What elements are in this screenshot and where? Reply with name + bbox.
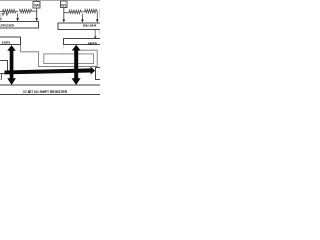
wire loop inner rectangle <box>44 54 94 64</box>
wiper terminal W1 box <box>60 0 67 8</box>
wiper terminal W0 box <box>33 0 40 8</box>
svg-text:256:1 MUX: 256:1 MUX <box>83 24 96 28</box>
tap tick T1 <box>2 13 4 17</box>
input terminal box 2 (cropped left) <box>0 74 2 80</box>
faint cropped tap at right edge <box>99 9 101 19</box>
wiper W0 wire + arrow into mux <box>35 8 38 21</box>
wiper register WR1 (WIPER) <box>64 38 102 45</box>
tap arrow A1 <box>16 13 19 21</box>
svg-text:W1: W1 <box>61 3 66 7</box>
faint cropped edge right of mux <box>99 30 101 33</box>
tap arrow A0 (cropped left) <box>0 13 2 21</box>
multiplexer U1 (MUX-0) <box>0 21 38 27</box>
bus B2 (serial horizontal thick to COUT box) <box>5 67 96 75</box>
svg-text:W0: W0 <box>34 3 39 7</box>
background <box>0 0 100 100</box>
wire WR0 loop (outer routing to COUT side) <box>21 45 98 67</box>
tap arrow A2 <box>81 14 84 23</box>
svg-text:MULTIPLEXER: MULTIPLEXER <box>0 23 15 27</box>
output buffer box (cropped right) <box>95 68 101 80</box>
top scan edge <box>0 0 100 2</box>
tap tick T2 <box>6 13 8 17</box>
svg-text:17-BIT I/O SHIFT REGISTER: 17-BIT I/O SHIFT REGISTER <box>23 90 68 94</box>
wiper register WR0 (8 BITS) <box>0 37 20 44</box>
wiper W1 wire + arrow into mux <box>62 8 65 23</box>
chain end arrow A3 <box>96 11 99 22</box>
resistor array R1 (POT-1 chain) <box>64 9 98 13</box>
wire MUX1 to WR1 + arrow <box>94 30 97 40</box>
wire WR1 drop stub <box>63 45 65 49</box>
svg-text:8 BITS: 8 BITS <box>2 40 11 44</box>
input control box (cropped left) <box>0 61 7 74</box>
shift register SR (17-BIT I/O) <box>0 85 101 95</box>
resistor array R0 (POT-0 chain) <box>0 9 37 13</box>
bus B1 (shift reg to WR1, vertical thick) <box>72 45 81 85</box>
bus B0 (shift reg to WR0, vertical thick) <box>7 45 16 85</box>
multiplexer U2 (256:1 MUX) <box>58 23 101 30</box>
svg-text:WIPER: WIPER <box>88 41 98 45</box>
